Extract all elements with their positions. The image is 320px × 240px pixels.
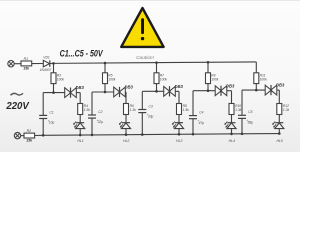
svg-text:1.5k: 1.5k: [84, 108, 91, 112]
svg-text:100k: 100k: [260, 78, 268, 82]
svg-text:100k: 100k: [108, 78, 116, 82]
svg-text:C2: C2: [98, 110, 102, 114]
svg-text:DB3: DB3: [76, 85, 85, 90]
svg-text:DB3: DB3: [125, 85, 134, 90]
svg-text:C1: C1: [49, 110, 53, 114]
svg-text:47μ: 47μ: [199, 121, 205, 125]
svg-text:R2: R2: [27, 129, 31, 133]
svg-text:68μ: 68μ: [248, 121, 254, 125]
svg-text:HL2: HL2: [123, 139, 129, 143]
svg-text:1.3k: 1.3k: [235, 108, 242, 112]
svg-text:C5: C5: [248, 110, 252, 114]
svg-text:C1...C5 - 50V: C1...C5 - 50V: [60, 49, 104, 59]
svg-text:C4: C4: [199, 111, 203, 115]
svg-text:DB3: DB3: [226, 83, 235, 88]
svg-text:R1: R1: [24, 57, 28, 61]
svg-text:220V: 220V: [5, 101, 30, 112]
svg-text:100k: 100k: [160, 78, 168, 82]
svg-text:1.3k: 1.3k: [130, 108, 137, 112]
svg-text:HL5: HL5: [276, 139, 282, 143]
svg-text:100k: 100k: [57, 78, 65, 82]
svg-text:1.3k: 1.3k: [283, 108, 290, 112]
svg-text:33μ: 33μ: [148, 115, 154, 119]
svg-text:DB3: DB3: [276, 83, 285, 88]
svg-text:1.5k: 1.5k: [183, 108, 190, 112]
svg-text:C3: C3: [149, 104, 153, 108]
svg-text:HL4: HL4: [229, 139, 235, 143]
svg-text:HL3: HL3: [176, 139, 182, 143]
svg-text:1N4007: 1N4007: [40, 68, 52, 72]
svg-text:Caution!: Caution!: [136, 55, 155, 61]
svg-text:10μ: 10μ: [49, 121, 55, 125]
svg-text:100k: 100k: [211, 78, 219, 82]
svg-text:DB3: DB3: [175, 84, 184, 89]
svg-text:VD1: VD1: [43, 55, 50, 59]
svg-text:HL1: HL1: [77, 139, 83, 143]
